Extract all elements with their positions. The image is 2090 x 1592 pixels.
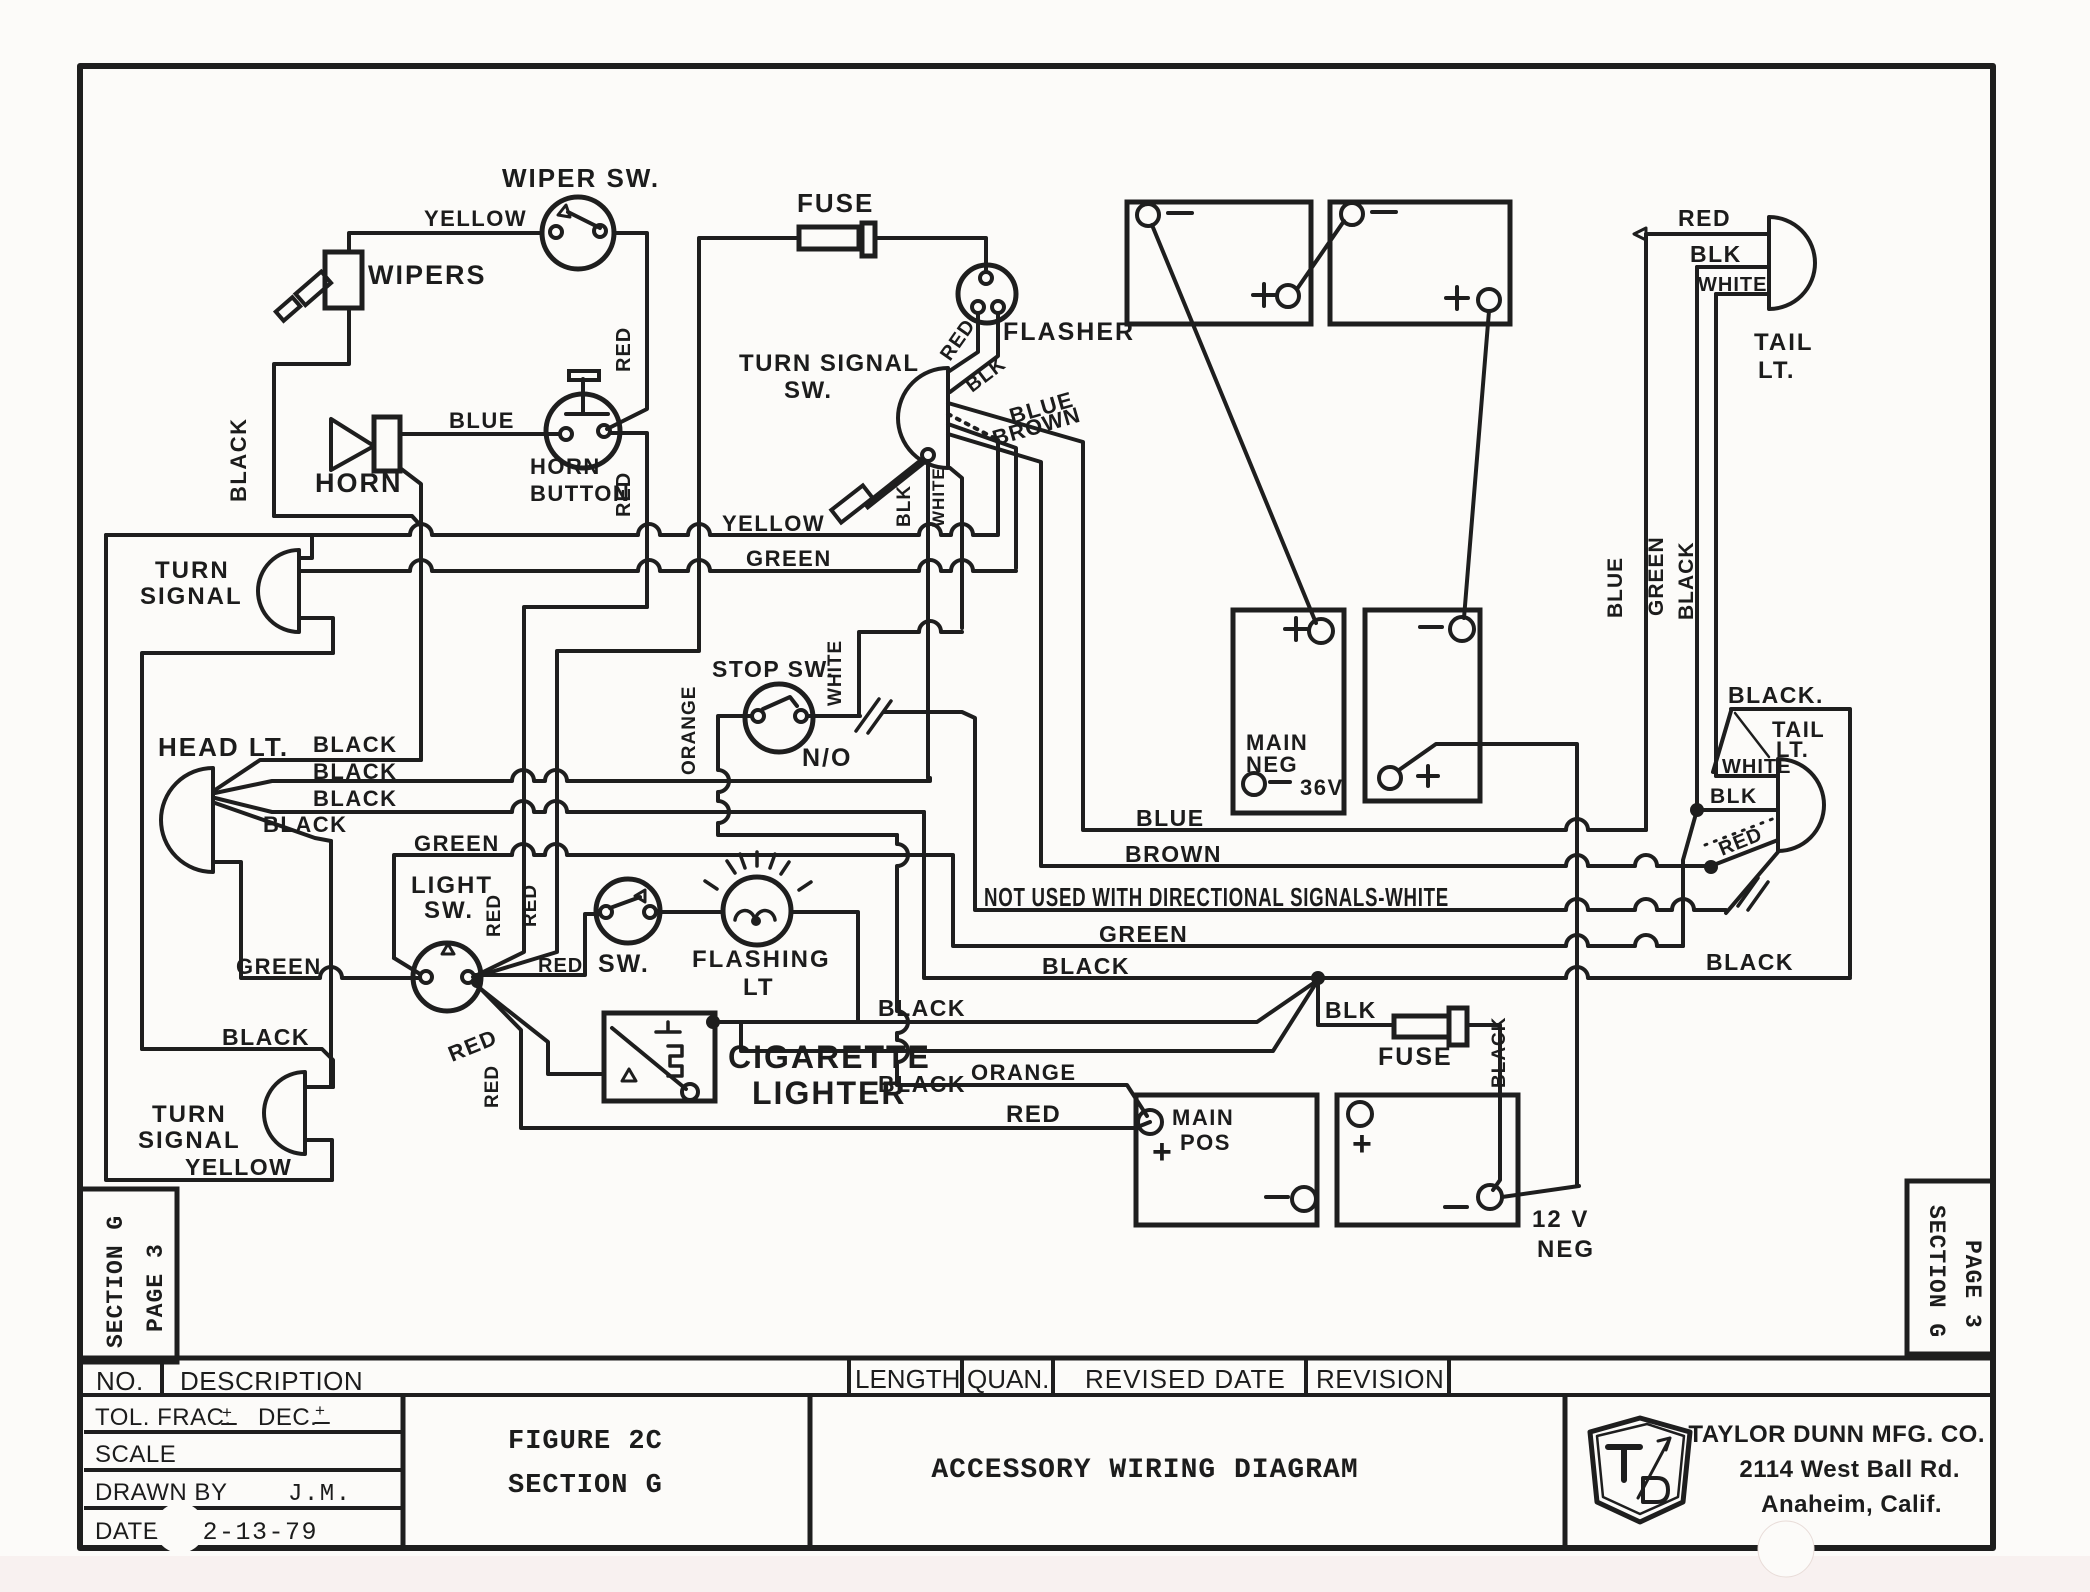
label TURN SIGNAL SW. bbox=[739, 350, 920, 404]
wire light switch to SW circle bbox=[474, 914, 599, 975]
taylor dunn logo bbox=[1590, 1418, 1690, 1522]
svg-text:REVISED DATE: REVISED DATE bbox=[1085, 1364, 1286, 1394]
tail light upper TAIL LT. bbox=[1769, 217, 1815, 309]
svg-text:NO.: NO. bbox=[96, 1366, 144, 1396]
svg-text:WIPER SW.: WIPER SW. bbox=[502, 163, 660, 193]
tail lower break marks bbox=[1738, 878, 1768, 910]
svg-text:12 V: 12 V bbox=[1532, 1206, 1589, 1233]
wire riser to 12v neg terminal bbox=[1502, 1186, 1579, 1197]
svg-text:BLACK: BLACK bbox=[1489, 1017, 1510, 1089]
wire green drop into light switch bbox=[394, 958, 420, 974]
svg-text:RED: RED bbox=[484, 894, 505, 937]
svg-text:+: + bbox=[315, 1401, 326, 1420]
svg-text:RED: RED bbox=[613, 472, 635, 517]
svg-text:J.M.: J.M. bbox=[288, 1481, 352, 1508]
wire GREEN bus bbox=[299, 560, 1016, 571]
left section/page label box bbox=[80, 1189, 177, 1362]
svg-text:TURN: TURN bbox=[152, 1101, 227, 1128]
svg-text:WIPERS: WIPERS bbox=[368, 260, 487, 290]
light switch LIGHT SW. bbox=[413, 943, 483, 1011]
svg-text:Anaheim, Calif.: Anaheim, Calif. bbox=[1761, 1491, 1942, 1518]
svg-text:BLK: BLK bbox=[1710, 785, 1758, 808]
svg-text:LT.: LT. bbox=[1758, 357, 1796, 384]
svg-text:HEAD LT.: HEAD LT. bbox=[158, 732, 289, 762]
wire light switch red down to main pos bbox=[475, 983, 1150, 1128]
svg-text:BROWN: BROWN bbox=[1125, 841, 1222, 867]
svg-text:RED: RED bbox=[1678, 205, 1731, 231]
wire green from light switch bbox=[394, 844, 1683, 958]
wire BLACK bus bbox=[924, 812, 1850, 978]
svg-text:GREEN: GREEN bbox=[746, 546, 832, 571]
wire stop sw orange bbox=[718, 716, 897, 835]
label FLASHING LT bbox=[692, 946, 831, 1001]
svg-text:RED: RED bbox=[613, 327, 635, 372]
svg-text:LENGTH: LENGTH bbox=[855, 1364, 960, 1394]
svg-text:FIGURE 2C: FIGURE 2C bbox=[508, 1427, 663, 1457]
wire tail red bbox=[1646, 232, 1769, 236]
label TURN SIGNAL upper bbox=[140, 557, 243, 610]
wire fuse left lead bbox=[475, 238, 799, 977]
svg-text:BLK: BLK bbox=[1325, 997, 1377, 1023]
svg-text:LIGHT: LIGHT bbox=[411, 872, 493, 899]
wire YELLOW bus bbox=[106, 524, 998, 535]
svg-text:RED: RED bbox=[538, 955, 583, 977]
wire ts switch dashed to yellow bbox=[948, 414, 998, 440]
wire yellow wiper-sw left bbox=[349, 233, 542, 252]
svg-text:GREEN: GREEN bbox=[1099, 921, 1188, 947]
svg-text:TURN: TURN bbox=[155, 557, 230, 584]
svg-text:POS: POS bbox=[1180, 1130, 1231, 1155]
wire riser black bbox=[1714, 294, 1718, 776]
date row bbox=[95, 1518, 318, 1547]
main neg battery box bbox=[1233, 610, 1344, 813]
label MAIN POS bbox=[1172, 1105, 1234, 1155]
svg-text:NOT USED WITH DIRECTIONAL SIGN: NOT USED WITH DIRECTIONAL SIGNALS-WHITE bbox=[984, 882, 1449, 912]
wire horn button right to red drop bbox=[610, 433, 647, 607]
cig lighter junction dot bbox=[706, 1015, 720, 1029]
svg-text:FLASHER: FLASHER bbox=[1003, 318, 1135, 346]
flashing light FLASHING LT bbox=[705, 852, 811, 945]
scale row bbox=[95, 1441, 176, 1468]
svg-text:FLASHING: FLASHING bbox=[692, 946, 831, 973]
wire white to lower tail bbox=[1716, 774, 1778, 778]
label TAIL LT lower bbox=[1772, 717, 1825, 762]
svg-text:WHITE: WHITE bbox=[1722, 756, 1791, 778]
label 12V NEG bbox=[1532, 1206, 1595, 1263]
drawn by row bbox=[95, 1479, 352, 1508]
wire tail white bbox=[1716, 292, 1769, 296]
right section/page label box bbox=[1907, 1181, 1993, 1354]
svg-text:GREEN: GREEN bbox=[1645, 536, 1668, 616]
label TURN SIGNAL lower bbox=[138, 1101, 241, 1154]
svg-text:SECTION G: SECTION G bbox=[1923, 1205, 1949, 1338]
mid battery 2 box bbox=[1365, 610, 1480, 801]
svg-text:WHITE: WHITE bbox=[825, 640, 846, 706]
svg-text:N/O: N/O bbox=[802, 744, 852, 772]
svg-text:QUAN.: QUAN. bbox=[967, 1364, 1049, 1394]
title block grid bbox=[80, 1358, 1993, 1548]
svg-text:PAGE 3: PAGE 3 bbox=[143, 1243, 169, 1332]
svg-text:BLACK: BLACK bbox=[313, 732, 398, 757]
wire BLUE bus bbox=[1084, 819, 1646, 830]
figure block text bbox=[508, 1427, 663, 1501]
svg-text:SIGNAL: SIGNAL bbox=[140, 583, 243, 610]
flasher FLASHER bbox=[958, 265, 1016, 323]
junction dot black bbox=[1311, 971, 1325, 985]
svg-text:STOP SW.: STOP SW. bbox=[712, 656, 834, 682]
wire tail blk bbox=[1697, 265, 1769, 269]
switch SW. bbox=[596, 879, 660, 943]
wire blk lower tail bbox=[1697, 808, 1778, 812]
stop wire break marks bbox=[856, 699, 891, 733]
dotted diagonal lower tail bbox=[1705, 818, 1775, 845]
wire wipers to black drop bbox=[274, 308, 349, 516]
svg-text:PAGE 3: PAGE 3 bbox=[1959, 1240, 1985, 1329]
taylor dunn address bbox=[1688, 1421, 1985, 1518]
wire wiper-sw right to red drop bbox=[607, 233, 647, 429]
svg-text:ORANGE: ORANGE bbox=[971, 1060, 1077, 1085]
wire brown to red terminal bbox=[1697, 840, 1778, 866]
svg-text:FUSE: FUSE bbox=[1378, 1043, 1453, 1071]
wire fuse to 12v battery bbox=[1467, 1025, 1500, 1190]
svg-text:BLACK: BLACK bbox=[313, 759, 398, 784]
wire ts switch white drop bbox=[950, 468, 962, 628]
wiper switch WIPER SW. bbox=[542, 197, 614, 269]
svg-text:RED: RED bbox=[1006, 1101, 1061, 1128]
wire lamp bottom to inner left drop bbox=[142, 653, 333, 1049]
svg-text:BLUE: BLUE bbox=[1604, 557, 1627, 618]
wire flasher blk to turn signal switch bbox=[950, 314, 998, 392]
svg-text:WHITE: WHITE bbox=[929, 467, 948, 527]
horn button HORN BUTTON bbox=[546, 371, 620, 468]
svg-text:+: + bbox=[1352, 1125, 1373, 1163]
svg-text:CIGARETTE: CIGARETTE bbox=[728, 1039, 931, 1075]
svg-text:TAIL: TAIL bbox=[1754, 329, 1814, 356]
wire headlight bottom green bbox=[213, 862, 420, 978]
tail light lower lamp bbox=[1778, 759, 1824, 851]
svg-text:BLACK: BLACK bbox=[878, 995, 966, 1021]
wire sw to flashing lt bbox=[656, 910, 723, 914]
turn signal switch TURN SIGNAL SW. bbox=[831, 368, 948, 523]
wire yellow loop left frame bbox=[106, 535, 332, 1180]
label LIGHT SW. bbox=[411, 872, 493, 924]
title row labels bbox=[96, 1364, 1444, 1396]
wire red jog to light switch bbox=[473, 607, 647, 977]
wire flasher red to turn signal switch bbox=[948, 314, 978, 372]
label HORN BUTTON bbox=[530, 454, 630, 506]
svg-text:2114 West Ball Rd.: 2114 West Ball Rd. bbox=[1739, 1456, 1960, 1483]
svg-text:HORN: HORN bbox=[315, 468, 403, 498]
svg-text:BLACK: BLACK bbox=[1042, 953, 1130, 979]
wire headlight black3 bbox=[215, 798, 924, 812]
tail light lower box bbox=[1731, 709, 1850, 976]
svg-text:BLK: BLK bbox=[1690, 241, 1742, 267]
accessory wiring diagram title bbox=[931, 1455, 1358, 1486]
wire black bottom to horn junction bbox=[274, 516, 421, 526]
wire battery2 plus down bbox=[1464, 311, 1489, 618]
main pos battery box bbox=[1136, 1095, 1317, 1225]
fuse body lower bbox=[1394, 1008, 1467, 1045]
wire mid battery2 plus to riser bbox=[1399, 744, 1577, 1186]
svg-text:LT: LT bbox=[743, 974, 775, 1001]
svg-text:REVISION: REVISION bbox=[1316, 1364, 1444, 1394]
wire flashing lt right drop bbox=[791, 912, 858, 1022]
svg-text:SCALE: SCALE bbox=[95, 1441, 176, 1468]
head light HEAD LT. bbox=[161, 768, 213, 872]
wire ts switch bottom blk drop bbox=[926, 461, 930, 778]
svg-text:BLACK: BLACK bbox=[313, 786, 398, 811]
svg-text:RED: RED bbox=[482, 1065, 503, 1108]
svg-text:NEG: NEG bbox=[1246, 752, 1298, 777]
fuse body top bbox=[799, 223, 875, 256]
svg-text:12-13-79: 12-13-79 bbox=[186, 1518, 318, 1547]
svg-text:DESCRIPTION: DESCRIPTION bbox=[180, 1366, 363, 1396]
punch hole bottom right bbox=[1758, 1521, 1814, 1577]
svg-text:BLK: BLK bbox=[894, 485, 915, 527]
wire WHITE bus not-used bbox=[975, 899, 1726, 910]
wire stop white up bbox=[859, 621, 962, 716]
label MAIN NEG 36V bbox=[1246, 730, 1344, 800]
svg-text:BLACK: BLACK bbox=[1675, 542, 1698, 621]
stop switch STOP SW. bbox=[745, 684, 813, 752]
wire headlight black1 bbox=[215, 760, 421, 790]
svg-text:YELLOW: YELLOW bbox=[722, 511, 825, 536]
svg-text:BLACK.: BLACK. bbox=[1728, 682, 1824, 708]
wire headlight black2 bbox=[215, 770, 930, 793]
svg-text:BLACK: BLACK bbox=[1706, 949, 1794, 975]
svg-text:SW.: SW. bbox=[598, 950, 650, 978]
vertical black wire to headlight bbox=[419, 526, 423, 760]
wire horn to down drop bbox=[400, 468, 421, 526]
svg-text:SIGNAL: SIGNAL bbox=[138, 1127, 241, 1154]
punch hole over date bbox=[155, 1503, 205, 1553]
wire stop sw right with break bbox=[807, 712, 975, 909]
battery box top left bbox=[1127, 202, 1311, 324]
wipers motor box WIPERS bbox=[276, 252, 362, 321]
svg-text:SECTION G: SECTION G bbox=[103, 1215, 129, 1348]
svg-text:GREEN: GREEN bbox=[236, 954, 322, 979]
svg-text:WHITE: WHITE bbox=[1698, 274, 1767, 296]
wire fuse right lead bbox=[875, 238, 986, 272]
turn signal lamp upper bbox=[258, 536, 333, 653]
tolerance row bbox=[95, 1401, 329, 1431]
svg-text:BLUE: BLUE bbox=[1136, 805, 1205, 831]
svg-text:SW.: SW. bbox=[424, 897, 474, 924]
turn signal lamp lower bbox=[264, 1072, 333, 1180]
svg-text:BLUE: BLUE bbox=[449, 408, 515, 433]
wire black to lower lamp bbox=[142, 1049, 333, 1087]
svg-text:YELLOW: YELLOW bbox=[185, 1154, 292, 1180]
wire battery1 plus to battery2 minus bbox=[1297, 221, 1344, 289]
horn speaker HORN bbox=[331, 417, 400, 471]
svg-text:HORN: HORN bbox=[530, 454, 601, 479]
svg-text:TURN SIGNAL: TURN SIGNAL bbox=[739, 350, 920, 377]
svg-text:+: + bbox=[1152, 1133, 1173, 1171]
svg-text:NEG: NEG bbox=[1537, 1236, 1595, 1263]
wire light switch to cigarette lighter bbox=[477, 986, 604, 1074]
battery box top right bbox=[1330, 202, 1510, 324]
wire BROWN bus bbox=[1042, 855, 1697, 866]
svg-text:YELLOW: YELLOW bbox=[424, 206, 527, 231]
svg-text:FUSE: FUSE bbox=[797, 188, 874, 218]
wire riser blue bbox=[1644, 234, 1648, 830]
svg-text:DEC.: DEC. bbox=[258, 1404, 317, 1431]
wire orange drop to main pos bbox=[897, 835, 1147, 1116]
svg-text:TAYLOR DUNN MFG. CO.: TAYLOR DUNN MFG. CO. bbox=[1688, 1421, 1985, 1448]
wire blk dot to green bus bbox=[1683, 810, 1697, 946]
svg-text:SW.: SW. bbox=[784, 377, 833, 404]
svg-text:BLACK: BLACK bbox=[263, 812, 348, 837]
wire black A to junction bbox=[713, 980, 1318, 1022]
wire ts switch to green bbox=[948, 424, 1016, 568]
wire white bus diag to tail bbox=[1726, 852, 1778, 913]
svg-text:LIGHTER: LIGHTER bbox=[752, 1075, 906, 1111]
wire headlight black4 drop bbox=[329, 841, 333, 1087]
label TAIL LT upper bbox=[1754, 329, 1814, 384]
svg-text:DRAWN BY: DRAWN BY bbox=[95, 1479, 227, 1506]
svg-text:TOL. FRAC.: TOL. FRAC. bbox=[95, 1404, 232, 1431]
wire junction to fuse BLK bbox=[1318, 978, 1394, 1025]
svg-text:GREEN: GREEN bbox=[414, 831, 500, 856]
svg-text:RED: RED bbox=[520, 884, 541, 927]
wire riser green bbox=[1695, 267, 1699, 810]
wire battery1 minus to main neg bbox=[1152, 225, 1316, 623]
wire blue horn to horn button bbox=[400, 432, 560, 436]
wire ts switch blue diagonal bbox=[948, 403, 1083, 830]
wire headlight black4 diag bbox=[215, 803, 331, 841]
tail lower funnel lines bbox=[1713, 711, 1731, 772]
svg-text:DATE: DATE bbox=[95, 1518, 159, 1545]
svg-text:BLACK: BLACK bbox=[222, 1024, 310, 1050]
wire ts switch brown diagonal bbox=[948, 434, 1041, 866]
12v neg battery box bbox=[1337, 1095, 1518, 1225]
wire black B to junction bbox=[741, 980, 1318, 1051]
svg-text:MAIN: MAIN bbox=[1172, 1105, 1234, 1130]
svg-text:36V: 36V bbox=[1300, 775, 1344, 800]
label CIGARETTE LIGHTER bbox=[728, 1039, 931, 1111]
svg-text:ORANGE: ORANGE bbox=[679, 686, 700, 775]
cigarette lighter box bbox=[604, 1013, 715, 1101]
svg-text:+: + bbox=[222, 1403, 233, 1422]
svg-text:ACCESSORY WIRING DIAGRAM: ACCESSORY WIRING DIAGRAM bbox=[931, 1455, 1358, 1486]
svg-text:BLACK: BLACK bbox=[226, 418, 251, 503]
svg-text:SECTION G: SECTION G bbox=[508, 1471, 663, 1501]
